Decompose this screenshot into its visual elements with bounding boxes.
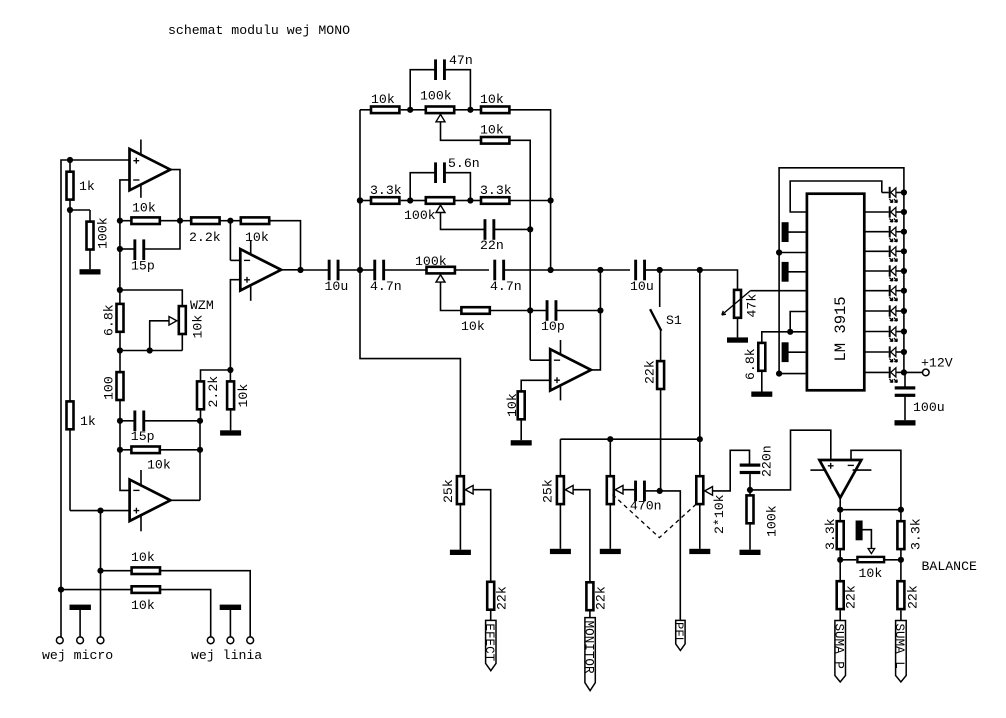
MONITOR wiper arrow (565, 485, 573, 494)
wire IC pin2 (788, 231, 806, 233)
capacitor 5.6n (434, 162, 446, 183)
wire (551, 269, 601, 271)
capacitor 15p (U2) (133, 411, 145, 432)
IC U6 LM3915 (807, 194, 864, 391)
wire IC pin3 (779, 252, 806, 254)
capacitor 10u (coupling 2) (634, 260, 646, 281)
wire WZM wiper (150, 321, 170, 351)
node IC pin9 (776, 371, 782, 377)
wire (119, 290, 121, 303)
mid wiper arrow (436, 205, 445, 212)
ground (47k) (727, 337, 748, 342)
wire to ground (699, 505, 701, 549)
wire LED rail top loop (779, 168, 904, 374)
svg-text:470n: 470n (630, 499, 662, 514)
wire U3 output (281, 269, 301, 271)
svg-text:5.6n: 5.6n (448, 156, 480, 171)
resistor 10k (row1 right) (481, 107, 509, 114)
capacitor 100u (895, 386, 916, 397)
svg-text:100u: 100u (913, 400, 945, 415)
wire (160, 220, 180, 222)
wire 220n to 100k (749, 474, 751, 495)
ground (MONITOR pot) (550, 549, 571, 554)
resistor 22k (MONITOR) (586, 582, 593, 610)
svg-text:LM 3915: LM 3915 (832, 296, 850, 361)
wire branch down (699, 270, 701, 439)
wire (120, 420, 135, 422)
ground (IC pin4) (782, 262, 789, 282)
wire U3 + input to divider (230, 280, 240, 370)
svg-text:15p: 15p (131, 259, 155, 274)
node LED9 cathode (901, 349, 907, 355)
svg-text:10u: 10u (630, 279, 654, 294)
wire 22k to 470n node (660, 390, 662, 491)
node PFL junction (657, 488, 663, 494)
pin wej micro 3 (97, 637, 104, 644)
node 47n right (467, 107, 473, 113)
node output left (837, 507, 843, 513)
resistor 1k (lower) (67, 401, 74, 429)
wire IC to LED10 (865, 371, 889, 373)
svg-text:wej linia: wej linia (191, 648, 262, 663)
node 10p junction (527, 307, 533, 313)
LED D1 (889, 187, 904, 203)
wire 15p to node (144, 420, 200, 422)
wire 1k lower column (69, 406, 71, 511)
U2 + sign (134, 508, 140, 514)
wire U4 - input (530, 359, 550, 361)
wire U4 output (591, 270, 600, 370)
wire 6.8k to rail (119, 333, 121, 351)
resistor 22k (SUMA P) (837, 581, 844, 609)
terminal +12V (923, 369, 930, 376)
resistor 6.8k (gain) (117, 304, 124, 332)
node balance left (837, 557, 843, 563)
capacitor 4.7n (left) (373, 260, 385, 281)
ground (IC pin2) (782, 222, 789, 242)
wire to linia pin4 (161, 590, 211, 637)
node aux rail pfl pot (607, 436, 613, 442)
wire (410, 200, 425, 202)
wire to MONITOR pot (559, 439, 561, 476)
wire to U5 + input (750, 430, 831, 490)
wire 5.6n left (410, 173, 435, 201)
ground (wej micro) (70, 605, 91, 610)
node LED10 cathode (901, 369, 907, 375)
resistor 10k (U3 feedback) (241, 217, 269, 224)
wire (220, 220, 231, 222)
svg-text:22k: 22k (844, 585, 859, 609)
potentiometer 100k body (426, 197, 454, 204)
potentiometer 25k (MONITOR) (557, 476, 564, 504)
ground (wej linia) (220, 605, 241, 610)
wire mic input to U1 + input (61, 160, 130, 637)
svg-text:15p: 15p (131, 429, 155, 444)
connector PFL (676, 620, 685, 650)
wire IC to LED9 (865, 351, 889, 353)
wire U3 bottom stub (250, 282, 252, 301)
node U1 output junction (177, 218, 183, 224)
wire to 47k pot (700, 270, 738, 290)
node 15p left (117, 246, 123, 252)
wire U3 - input (230, 259, 240, 261)
potentiometer 2*10k (696, 476, 703, 504)
node row3 left (357, 197, 363, 203)
wire IC to LED8 (865, 331, 889, 333)
svg-text:10k: 10k (505, 393, 520, 417)
resistor 22k (PFL) (657, 361, 664, 389)
wire 470n right (645, 490, 660, 492)
svg-text:10k: 10k (480, 123, 504, 138)
pin wej micro 2 (77, 637, 84, 644)
potentiometer 25k (PFL) (607, 476, 614, 504)
ground (IC pin8) (782, 342, 789, 362)
node 5.6n right (467, 197, 473, 203)
node LED3 cathode (901, 229, 907, 235)
resistor 3.3k (row3 right) (481, 197, 509, 204)
node U2 output junction (197, 447, 203, 453)
connector EFECT (486, 620, 496, 670)
resistor 100k (bus) (747, 495, 754, 523)
wire (89, 210, 91, 221)
svg-text:100k: 100k (765, 505, 780, 537)
resistor 22k (SUMA L) (897, 581, 904, 609)
node LED1 cathode (901, 189, 907, 195)
svg-text:22k: 22k (594, 586, 609, 610)
node 22n junction (527, 226, 533, 232)
wire U4 top stub (560, 340, 562, 358)
pin wej linia 2 (227, 637, 234, 644)
wire (160, 449, 200, 451)
wire (360, 200, 370, 202)
wire (900, 610, 902, 620)
svg-text:EFECT: EFECT (482, 623, 496, 661)
resistor 10k (U2 feedback) (131, 447, 159, 454)
node LED4 cathode (901, 248, 907, 254)
pin wej linia 1 (207, 637, 214, 644)
ground (balance wiper) (856, 521, 863, 541)
wire to PFL connector (660, 491, 681, 621)
wire to ground (559, 505, 561, 549)
node 2.2k bottom (197, 418, 203, 424)
balance wiper arrow (868, 549, 875, 554)
wire to ground (737, 319, 739, 337)
svg-text:1k: 1k (80, 414, 96, 429)
switch S1 (650, 309, 661, 331)
capacitor 22n (484, 219, 496, 240)
wire IC pin9 (779, 373, 806, 375)
wire (455, 200, 470, 202)
wire U5 right stub (853, 469, 872, 471)
node outer rail (58, 587, 64, 593)
svg-text:100k: 100k (415, 254, 447, 269)
resistor 6.8k (IC) (758, 343, 765, 371)
svg-text:3.3k: 3.3k (909, 518, 924, 550)
resistor 3.3k (right) (897, 521, 904, 549)
resistor 100k (input bias) (87, 222, 94, 250)
wire (229, 370, 231, 381)
resistor 2.2k (series) (191, 217, 219, 224)
svg-text:6.8k: 6.8k (102, 304, 117, 336)
wire (360, 269, 375, 271)
wire wiper ground (862, 530, 872, 549)
wire U4 bottom stub (560, 382, 562, 400)
wire (600, 269, 630, 271)
potentiometer WZM 10k (179, 306, 186, 334)
wire (839, 510, 841, 521)
U3 + sign (244, 277, 250, 283)
resistor 1k (upper) (67, 172, 74, 200)
wire output column (199, 421, 201, 501)
wire ground to pin5 (229, 610, 231, 637)
U5 + sign (828, 463, 834, 469)
svg-text:BALANCE: BALANCE (922, 559, 977, 574)
node wiper junction (147, 347, 153, 353)
svg-text:10k: 10k (245, 230, 269, 245)
wire switch to 22k (660, 331, 662, 361)
resistor 10k (divider) (227, 381, 234, 409)
svg-text:10k: 10k (371, 92, 395, 107)
pin wej linia 3 (247, 637, 254, 644)
wire U5 output (839, 498, 841, 510)
wire gain rail (120, 350, 182, 352)
wire to +12V (904, 371, 923, 373)
wire to ground (609, 505, 611, 549)
resistor 10k (row1 left) (371, 107, 399, 114)
wire 15p to output (144, 221, 180, 249)
potentiometer 100k body (426, 107, 454, 114)
wire (120, 248, 135, 250)
node LED7 cathode (901, 308, 907, 314)
wire to 100u (904, 372, 906, 387)
wire aux rail (560, 438, 699, 440)
wire (401, 109, 411, 111)
ground (100k) (80, 269, 101, 274)
ground (U4 bias) (511, 440, 532, 445)
47k wiper diagonal (722, 291, 751, 315)
wire wiper to 470n (623, 489, 634, 491)
LED D5 (889, 265, 904, 281)
node LED6 cathode (901, 288, 907, 294)
ground (100u) (895, 420, 916, 425)
svg-text:4.7n: 4.7n (370, 279, 402, 294)
wire to ground (749, 525, 751, 550)
LED D2 (889, 206, 904, 222)
node 47n left (407, 107, 413, 113)
wire IC to LED4 (865, 250, 889, 252)
wire 1k chain (69, 201, 71, 406)
wire EQ left rail (359, 110, 361, 270)
svg-text:25k: 25k (441, 479, 456, 503)
wire bass wiper (441, 282, 461, 310)
svg-text:3.3k: 3.3k (480, 183, 512, 198)
node 15p-2 left (117, 418, 123, 424)
wire LED1 cathode (882, 192, 889, 194)
wire (120, 449, 131, 451)
capacitor 47n (434, 59, 446, 80)
resistor 3.3k (row3 left) (371, 197, 399, 204)
wire EFECT wiper (473, 490, 491, 581)
wire IC pin6 (790, 312, 806, 332)
node meter branch (697, 267, 703, 273)
wire (101, 570, 132, 572)
node EQ left rail (357, 267, 363, 273)
wire (839, 550, 841, 580)
LED D6 (889, 285, 904, 301)
node gain network (117, 287, 123, 293)
svg-text:6.8k: 6.8k (743, 348, 758, 380)
svg-text:SUMA P: SUMA P (831, 624, 845, 669)
wire (338, 269, 360, 271)
resistor 10k (treble wiper) (481, 137, 509, 144)
wire (384, 269, 426, 271)
wire 10k to ground (230, 410, 232, 430)
resistor 100 (117, 372, 124, 400)
wire (120, 220, 131, 222)
EFECT wiper arrow (465, 485, 473, 494)
LED D9 (889, 346, 904, 362)
resistor 22k (EFECT) (487, 582, 494, 610)
wire MONITOR wiper (573, 490, 590, 582)
wire (230, 220, 241, 222)
svg-text:100k: 100k (404, 208, 436, 223)
svg-text:10k: 10k (461, 319, 485, 334)
wire mid wiper (441, 213, 485, 230)
wire 47k wiper to IC pin5 (751, 290, 806, 292)
svg-text:+12V: +12V (921, 356, 953, 371)
svg-text:WZM: WZM (190, 298, 214, 313)
wire U5 left stub (810, 469, 825, 471)
capacitor 220n (740, 464, 761, 475)
resistor 10k (line in lower) (132, 586, 160, 593)
svg-text:4.7n: 4.7n (490, 279, 522, 294)
wire output row (840, 509, 901, 511)
wire (180, 220, 191, 222)
PFL wiper arrow (615, 485, 623, 494)
svg-text:22n: 22n (480, 238, 504, 253)
wire (530, 310, 546, 312)
wire to ground (459, 505, 461, 550)
wire (900, 550, 902, 580)
resistor 10k (line in upper) (132, 567, 160, 574)
wire feedback to output (269, 221, 300, 270)
wire (61, 589, 131, 591)
svg-text:25k: 25k (541, 479, 556, 503)
wire 47n left (410, 70, 435, 110)
node U3 output (297, 267, 303, 273)
wire to U2 feedback (119, 400, 121, 450)
node pin6/7 (787, 329, 793, 335)
svg-text:10k: 10k (191, 315, 206, 339)
wire EQ-in to EFECT pot (360, 270, 460, 476)
wire U2 + input (70, 510, 130, 512)
resistor 3.3k (left) (837, 521, 844, 549)
wire (301, 269, 330, 271)
node U4 output junction (597, 267, 603, 273)
U2 - sign (133, 489, 139, 491)
wire U5 - feedback (851, 450, 901, 509)
wire row1 to right rail (510, 110, 550, 201)
ground (PFL pot) (600, 549, 621, 554)
wire to connector (490, 611, 492, 621)
svg-text:schemat modulu wej MONO: schemat modulu wej MONO (168, 23, 350, 38)
2*10k wiper arrow (705, 487, 713, 496)
node U1 feedback (117, 218, 123, 224)
wire (840, 559, 856, 561)
ground (2*10k pot) (689, 549, 710, 554)
node EQ right rail (548, 267, 554, 273)
svg-text:10u: 10u (325, 279, 349, 294)
svg-text:2*10k: 2*10k (712, 494, 727, 534)
wire U2 bottom stub (140, 513, 142, 531)
node LED5 cathode (901, 268, 907, 274)
capacitor 470n (634, 481, 646, 502)
wire to ground (761, 371, 763, 391)
capacitor 4.7n (right) (493, 260, 505, 281)
resistor 10k (U4 bias) (518, 391, 525, 419)
op-amp U4 (550, 349, 591, 390)
wire U1 bottom stub (140, 182, 142, 198)
node gain rail left (117, 347, 123, 353)
wire feedback column (119, 221, 121, 290)
wire (360, 109, 370, 111)
wire U2 output (170, 499, 200, 501)
wire 2.2k bottom (200, 410, 202, 421)
ground (6.8k) (751, 392, 772, 397)
capacitor 10p (546, 300, 558, 321)
potentiometer 47k (level) (734, 290, 741, 318)
wire 47n right (445, 70, 470, 110)
wire row3 to right rail (510, 200, 550, 202)
node 10k upper (97, 568, 103, 574)
wire (455, 109, 470, 111)
wire (410, 109, 425, 111)
svg-text:22k: 22k (495, 586, 510, 610)
wire to linia pin6 (161, 571, 251, 637)
svg-text:10k: 10k (859, 566, 883, 581)
U1 - sign (133, 179, 139, 181)
svg-text:S1: S1 (666, 313, 682, 328)
svg-text:100: 100 (102, 376, 117, 400)
wire (885, 559, 901, 561)
svg-text:100k: 100k (96, 217, 111, 249)
LED cathode rail (903, 193, 905, 373)
svg-text:PFL: PFL (672, 622, 686, 644)
wire to ground (520, 420, 522, 440)
node monitor bus (747, 487, 753, 493)
wire IC to LED3 (865, 231, 889, 233)
op-amp U2 (130, 480, 171, 521)
svg-text:2.2k: 2.2k (206, 376, 221, 408)
wire right rail down (550, 201, 552, 271)
node S1 branch (657, 267, 663, 273)
svg-text:47k: 47k (745, 294, 760, 318)
bass wiper arrow (436, 275, 445, 282)
svg-text:10k: 10k (131, 550, 155, 565)
node U3 - input (227, 218, 233, 224)
ground (divider) (220, 430, 241, 435)
capacitor 15p (U1) (133, 239, 145, 260)
wire (470, 200, 480, 202)
treble wiper arrow (436, 114, 445, 121)
pin wej micro 1 (56, 637, 63, 644)
LED D8 (889, 326, 904, 342)
node IC pin3 (776, 249, 782, 255)
U5 - sign (848, 464, 854, 466)
svg-text:10k: 10k (132, 201, 156, 216)
connector SUMA L (896, 621, 907, 683)
wire 10p right (557, 310, 601, 312)
